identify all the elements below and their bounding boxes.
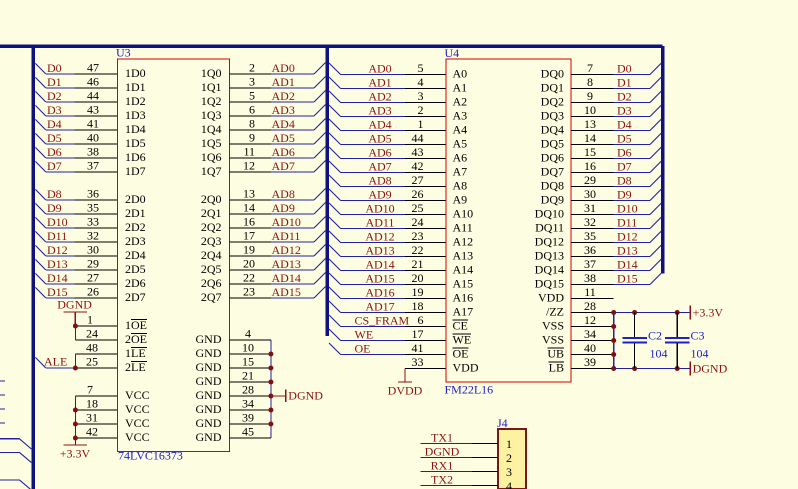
svg-text:104: 104 — [691, 347, 709, 361]
wire DGND to J4 pin 2 — [421, 445, 512, 466]
svg-text:36: 36 — [87, 187, 99, 201]
power +3.3V symbol below U3 — [60, 445, 91, 461]
svg-text:19: 19 — [243, 243, 255, 257]
svg-text:D14: D14 — [617, 258, 638, 272]
svg-text:A9: A9 — [453, 193, 468, 207]
wire D15 to U3 pin 26 (bus entry from left D-bus) — [35, 285, 117, 300]
svg-text:AD2: AD2 — [368, 90, 391, 104]
wire vertical tie VSS/UB pins to rails — [611, 313, 616, 369]
svg-text:A3: A3 — [453, 109, 468, 123]
pin name DQ6 of U4 (right) — [541, 151, 564, 165]
svg-text:14: 14 — [584, 131, 596, 145]
capacitor C2 104 — [623, 313, 668, 369]
wire stub at left edge row 381 — [0, 380, 5, 382]
svg-text:AD4: AD4 — [368, 118, 391, 132]
svg-text:VCC: VCC — [125, 430, 150, 444]
wire AD9 from AD-bus to U4 pin 26 — [329, 187, 446, 202]
svg-text:A16: A16 — [453, 291, 474, 305]
wire AD15 from AD-bus to U4 pin 20 — [329, 271, 446, 286]
svg-text:AD3: AD3 — [368, 104, 391, 118]
svg-text:OE: OE — [355, 342, 371, 356]
svg-text:GND: GND — [196, 416, 222, 430]
svg-text:AD1: AD1 — [272, 75, 295, 89]
wire from left edge into D-bus row 452.3 — [0, 452, 31, 462]
pin name A16 of U4 — [453, 291, 474, 305]
svg-text:D10: D10 — [47, 215, 68, 229]
svg-text:3: 3 — [418, 89, 424, 103]
pin name A2 of U4 — [453, 95, 468, 109]
svg-text:44: 44 — [412, 131, 424, 145]
svg-text:VCC: VCC — [125, 416, 150, 430]
svg-text:LB: LB — [549, 361, 564, 375]
svg-text:1Q0: 1Q0 — [201, 66, 222, 80]
svg-text:AD3: AD3 — [272, 103, 295, 117]
svg-text:D1: D1 — [617, 76, 632, 90]
svg-text:A0: A0 — [453, 67, 468, 81]
svg-text:32: 32 — [87, 229, 99, 243]
wire AD5 from U3 pin 9 to AD-bus — [230, 131, 326, 146]
node ALE: net label and wire into U3 pin 25 (2LE) — [35, 355, 117, 371]
pin name 1LE (active low) of U3 — [125, 346, 147, 360]
svg-text:35: 35 — [87, 201, 99, 215]
svg-text:DQ10: DQ10 — [535, 207, 564, 221]
svg-text:AD1: AD1 — [368, 76, 391, 90]
wire D8 from U4 pin 29 to right D-bus — [571, 173, 661, 188]
svg-text:30: 30 — [87, 243, 99, 257]
svg-text:1D0: 1D0 — [125, 66, 146, 80]
svg-text:D5: D5 — [47, 131, 62, 145]
wire U4 pin 34 to ground rail — [571, 327, 614, 341]
svg-text:16: 16 — [584, 159, 596, 173]
svg-text:AD9: AD9 — [272, 201, 295, 215]
svg-text:17: 17 — [412, 327, 424, 341]
svg-text:DQ12: DQ12 — [535, 235, 564, 249]
pin name VDD of U4 — [453, 361, 479, 375]
pin name DQ1 of U4 (right) — [541, 81, 564, 95]
svg-text:A14: A14 — [453, 263, 474, 277]
wire AD0 from U3 pin 2 to AD-bus — [230, 61, 326, 76]
svg-text:2D4: 2D4 — [125, 248, 146, 262]
wire D14 to U3 pin 27 (bus entry from left D-bus) — [35, 271, 117, 286]
wire D13 to U3 pin 29 (bus entry from left D-bus) — [35, 257, 117, 272]
svg-text:VDD: VDD — [538, 291, 564, 305]
pin name 1D1 of U3 — [125, 80, 222, 94]
svg-text:7: 7 — [587, 61, 593, 75]
svg-text:AD2: AD2 — [272, 89, 295, 103]
wire DGND rail (pin 39 row) — [611, 366, 690, 371]
wire U3 pin 24 (2OE) — [75, 327, 117, 341]
svg-text:43: 43 — [412, 145, 424, 159]
svg-text:7: 7 — [87, 383, 93, 397]
svg-text:9: 9 — [587, 89, 593, 103]
capacitor C3 104 — [665, 313, 708, 369]
pin name DQ8 of U4 (right) — [541, 179, 564, 193]
wire WE from AD-bus to U4 pin 17 — [329, 327, 446, 342]
svg-text:1Q7: 1Q7 — [201, 164, 222, 178]
pin name A0 of U4 — [453, 67, 468, 81]
svg-text:18: 18 — [86, 397, 98, 411]
wire AD8 from AD-bus to U4 pin 27 — [329, 173, 446, 188]
wire TX2 to J4 pin 4 — [421, 473, 512, 489]
svg-text:A7: A7 — [453, 165, 468, 179]
svg-text:40: 40 — [87, 131, 99, 145]
pin name 2D6 of U3 — [125, 276, 222, 290]
wire: vertical GND rail right of U3 — [270, 340, 272, 438]
pin name 1OE (active low) of U3 — [125, 318, 147, 332]
svg-text:U3: U3 — [116, 46, 131, 60]
svg-text:34: 34 — [242, 397, 254, 411]
power +3.3V port right of capacitors — [690, 306, 723, 320]
svg-text:J4: J4 — [497, 416, 508, 430]
svg-text:AD15: AD15 — [365, 272, 394, 286]
wire D3 to U3 pin 43 (bus entry from left D-bus) — [35, 103, 117, 118]
svg-text:A2: A2 — [453, 95, 468, 109]
svg-text:46: 46 — [87, 75, 99, 89]
svg-text:AD10: AD10 — [365, 202, 394, 216]
pin name VCC of U3 — [125, 430, 150, 444]
svg-text:VDD: VDD — [453, 361, 479, 375]
pin name A6 of U4 — [453, 151, 468, 165]
svg-text:10: 10 — [242, 341, 254, 355]
pin name DQ10 of U4 (right) — [535, 207, 564, 221]
svg-text:A4: A4 — [453, 123, 468, 137]
svg-text:VCC: VCC — [125, 388, 150, 402]
pin name A15 of U4 — [453, 277, 474, 291]
transistor U4 FRAM FM22L16 component body — [445, 46, 572, 397]
svg-text:28: 28 — [242, 383, 254, 397]
svg-text:RX1: RX1 — [431, 459, 454, 473]
svg-text:AD8: AD8 — [368, 174, 391, 188]
svg-text:DGND: DGND — [693, 362, 728, 376]
wire D4 from U4 pin 13 to right D-bus — [571, 117, 661, 132]
svg-text:32: 32 — [584, 215, 596, 229]
svg-text:D8: D8 — [47, 187, 62, 201]
svg-text:1D3: 1D3 — [125, 108, 146, 122]
pin name A8 of U4 — [453, 179, 468, 193]
wire stub at left edge row 395 — [0, 394, 5, 396]
svg-text:4: 4 — [245, 327, 251, 341]
wire: vertical tie pins 1-24 — [74, 326, 76, 340]
pin name VSS of U4 (right) — [542, 319, 564, 333]
svg-text:36: 36 — [584, 243, 596, 257]
wire: vertical tie pins 48-25 — [74, 354, 76, 368]
svg-text:22: 22 — [412, 243, 424, 257]
svg-text:39: 39 — [242, 411, 254, 425]
svg-text:45: 45 — [242, 425, 254, 439]
svg-text:AD0: AD0 — [368, 62, 391, 76]
wire D9 from U4 pin 30 to right D-bus — [571, 187, 661, 202]
connector J4 body — [497, 416, 526, 489]
wire U3 GND pin 34 — [230, 397, 274, 413]
svg-text:1D1: 1D1 — [125, 80, 146, 94]
svg-text:1Q4: 1Q4 — [201, 122, 222, 136]
wire U4 VDD pin 33 to DVDD — [405, 355, 446, 369]
svg-text:1Q2: 1Q2 — [201, 94, 222, 108]
svg-text:GND: GND — [196, 430, 222, 444]
wire U3 pin 1 (1OE) with junction to DGND — [73, 313, 118, 329]
pin name A12 of U4 — [453, 235, 474, 249]
svg-text:2: 2 — [249, 61, 255, 75]
wire AD10 from AD-bus to U4 pin 25 — [329, 201, 446, 216]
wire AD5 from AD-bus to U4 pin 44 — [329, 131, 446, 146]
pin name VDD of U4 (right) — [538, 291, 564, 305]
pin name DQ3 of U4 (right) — [541, 109, 564, 123]
svg-text:UB: UB — [547, 347, 564, 361]
svg-text:2Q3: 2Q3 — [201, 234, 222, 248]
svg-text:A17: A17 — [453, 305, 474, 319]
svg-text:D10: D10 — [617, 202, 638, 216]
svg-text:DQ14: DQ14 — [535, 263, 564, 277]
wire stub at left edge row 409 — [0, 408, 5, 410]
pin name DQ12 of U4 (right) — [535, 235, 564, 249]
svg-text:44: 44 — [87, 89, 99, 103]
wire U4 pin 39 to ground rail — [571, 355, 614, 369]
svg-text:AD13: AD13 — [365, 244, 394, 258]
svg-text:U4: U4 — [445, 46, 460, 60]
svg-text:CE: CE — [453, 319, 468, 333]
svg-text:2D1: 2D1 — [125, 206, 146, 220]
wire D1 to U3 pin 46 (bus entry from left D-bus) — [35, 75, 117, 90]
pin name DQ7 of U4 (right) — [541, 165, 564, 179]
svg-text:4: 4 — [418, 75, 424, 89]
wire U3 VCC pin 42 — [73, 425, 118, 441]
svg-text:11: 11 — [243, 145, 255, 159]
pin name DQ4 of U4 (right) — [541, 123, 564, 137]
wire U3 GND pin 21 — [230, 369, 274, 385]
svg-text:D3: D3 — [47, 103, 62, 117]
svg-text:1D7: 1D7 — [125, 164, 146, 178]
svg-text:3: 3 — [249, 75, 255, 89]
svg-text:D0: D0 — [47, 61, 62, 75]
svg-text:AD7: AD7 — [272, 159, 295, 173]
svg-text:AD8: AD8 — [272, 187, 295, 201]
svg-text:1Q1: 1Q1 — [201, 80, 222, 94]
pin name DQ5 of U4 (right) — [541, 137, 564, 151]
svg-text:1Q6: 1Q6 — [201, 150, 222, 164]
pin name GND of U3 — [196, 388, 222, 402]
pin name 2D4 of U3 — [125, 248, 222, 262]
bus: main horizontal data bus at top — [0, 44, 663, 48]
svg-text:AD16: AD16 — [365, 286, 394, 300]
wire AD2 from U3 pin 5 to AD-bus — [230, 89, 326, 104]
svg-text:D7: D7 — [617, 160, 632, 174]
svg-text:GND: GND — [196, 402, 222, 416]
wire AD9 from U3 pin 14 to AD-bus — [230, 201, 326, 216]
pin name GND of U3 — [196, 346, 222, 360]
pin name 1D3 of U3 — [125, 108, 222, 122]
svg-text:DQ9: DQ9 — [541, 193, 564, 207]
svg-text:D2: D2 — [617, 90, 632, 104]
svg-text:D13: D13 — [47, 257, 68, 271]
svg-text:D4: D4 — [617, 118, 632, 132]
pin name DQ11 of U4 (right) — [535, 221, 564, 235]
svg-text:48: 48 — [86, 341, 98, 355]
wire OE from AD-bus to U4 pin 41 — [329, 341, 446, 356]
wire D2 to U3 pin 44 (bus entry from left D-bus) — [35, 89, 117, 104]
pin name GND of U3 — [196, 416, 222, 430]
wire AD16 from AD-bus to U4 pin 19 — [329, 285, 446, 300]
wire CS_FRAM from AD-bus to U4 pin 6 — [329, 313, 446, 328]
svg-text:31: 31 — [86, 411, 98, 425]
pin name A3 of U4 — [453, 109, 468, 123]
svg-text:FM22L16: FM22L16 — [445, 383, 494, 397]
wire D0 to U3 pin 47 (bus entry from left D-bus) — [35, 61, 117, 76]
svg-text:2D5: 2D5 — [125, 262, 146, 276]
wire AD3 from U3 pin 6 to AD-bus — [230, 103, 326, 118]
pin name A13 of U4 — [453, 249, 474, 263]
svg-text:AD7: AD7 — [368, 160, 391, 174]
svg-text:13: 13 — [243, 187, 255, 201]
pin name DQ13 of U4 (right) — [535, 249, 564, 263]
svg-text:/ZZ: /ZZ — [546, 305, 564, 319]
wire +3.3V rail (pin 28 row) — [611, 310, 690, 315]
svg-text:D12: D12 — [617, 230, 638, 244]
svg-text:2Q7: 2Q7 — [201, 290, 222, 304]
svg-text:2Q2: 2Q2 — [201, 220, 222, 234]
pin name A17 of U4 — [453, 305, 474, 319]
svg-text:D8: D8 — [617, 174, 632, 188]
bus: middle vertical AD-bus — [325, 46, 329, 336]
wire TX1 to J4 pin 1 — [421, 431, 512, 452]
svg-text:2Q4: 2Q4 — [201, 248, 222, 262]
svg-text:5: 5 — [418, 61, 424, 75]
pin name 2D1 of U3 — [125, 206, 222, 220]
wire AD7 from U3 pin 12 to AD-bus — [230, 159, 326, 174]
svg-text:20: 20 — [243, 257, 255, 271]
svg-text:2D0: 2D0 — [125, 192, 146, 206]
wire D2 from U4 pin 9 to right D-bus — [571, 89, 661, 104]
svg-text:2D6: 2D6 — [125, 276, 146, 290]
wire D1 from U4 pin 8 to right D-bus — [571, 75, 661, 90]
wire U4 pin 12 to ground rail — [571, 313, 614, 327]
svg-text:A10: A10 — [453, 207, 474, 221]
svg-text:2Q5: 2Q5 — [201, 262, 222, 276]
svg-text:C2: C2 — [648, 329, 662, 343]
pin name A4 of U4 — [453, 123, 468, 137]
pin name GND of U3 — [196, 402, 222, 416]
wire AD2 from AD-bus to U4 pin 3 — [329, 89, 446, 104]
wire U3 VCC pin 7 — [75, 383, 117, 397]
svg-text:DQ0: DQ0 — [541, 67, 564, 81]
bus: right vertical D-bus to U4 — [661, 46, 665, 274]
svg-text:DGND: DGND — [57, 298, 92, 312]
pin name A10 of U4 — [453, 207, 474, 221]
wire AD6 from U3 pin 11 to AD-bus — [230, 145, 326, 160]
svg-text:ALE: ALE — [44, 355, 67, 369]
svg-text:33: 33 — [412, 355, 424, 369]
svg-text:D13: D13 — [617, 244, 638, 258]
ground DGND port right of capacitors — [690, 362, 727, 376]
wire D5 to U3 pin 40 (bus entry from left D-bus) — [35, 131, 117, 146]
wire from left edge into D-bus row 479.8 — [0, 480, 31, 489]
svg-text:42: 42 — [412, 159, 424, 173]
pin name A5 of U4 — [453, 137, 468, 151]
svg-text:GND: GND — [196, 346, 222, 360]
svg-text:25: 25 — [86, 355, 98, 369]
svg-text:42: 42 — [86, 425, 98, 439]
svg-text:2: 2 — [506, 451, 512, 465]
wire AD8 from U3 pin 13 to AD-bus — [230, 187, 326, 202]
wire D7 from U4 pin 16 to right D-bus — [571, 159, 661, 174]
wire D12 to U3 pin 30 (bus entry from left D-bus) — [35, 243, 117, 258]
svg-text:D12: D12 — [47, 243, 68, 257]
wire U3 GND pin 39 — [230, 411, 274, 427]
svg-text:AD4: AD4 — [272, 117, 295, 131]
svg-text:28: 28 — [584, 299, 596, 313]
wire AD6 from AD-bus to U4 pin 43 — [329, 145, 446, 160]
pin name UB of U4 (right) — [547, 347, 564, 361]
svg-text:1D6: 1D6 — [125, 150, 146, 164]
svg-text:29: 29 — [87, 257, 99, 271]
wire AD11 from AD-bus to U4 pin 24 — [329, 215, 446, 230]
svg-text:1Q3: 1Q3 — [201, 108, 222, 122]
svg-text:DQ5: DQ5 — [541, 137, 564, 151]
wire D4 to U3 pin 41 (bus entry from left D-bus) — [35, 117, 117, 132]
svg-text:AD5: AD5 — [368, 132, 391, 146]
svg-text:12: 12 — [584, 313, 596, 327]
wire U3 GND pin 45 — [230, 425, 271, 439]
wire AD12 from U3 pin 19 to AD-bus — [230, 243, 326, 258]
svg-text:TX1: TX1 — [431, 431, 453, 445]
svg-text:A6: A6 — [453, 151, 468, 165]
svg-text:23: 23 — [412, 229, 424, 243]
svg-text:1: 1 — [418, 117, 424, 131]
svg-text:DQ2: DQ2 — [541, 95, 564, 109]
svg-text:35: 35 — [584, 229, 596, 243]
svg-text:2OE: 2OE — [125, 332, 147, 346]
pin name 1D7 of U3 — [125, 164, 222, 178]
svg-text:AD0: AD0 — [272, 61, 295, 75]
wire AD4 from AD-bus to U4 pin 1 — [329, 117, 446, 132]
pin name 1D2 of U3 — [125, 94, 222, 108]
svg-text:5: 5 — [249, 89, 255, 103]
svg-text:VCC: VCC — [125, 402, 150, 416]
svg-text:8: 8 — [249, 117, 255, 131]
pin name A14 of U4 — [453, 263, 474, 277]
svg-text:29: 29 — [584, 173, 596, 187]
svg-text:1OE: 1OE — [125, 318, 147, 332]
svg-text:11: 11 — [584, 285, 596, 299]
pin name 1D4 of U3 — [125, 122, 222, 136]
svg-text:DQ1: DQ1 — [541, 81, 564, 95]
svg-text:6: 6 — [418, 313, 424, 327]
wire D9 to U3 pin 35 (bus entry from left D-bus) — [35, 201, 117, 216]
wire AD4 from U3 pin 8 to AD-bus — [230, 117, 326, 132]
pin name 1D5 of U3 — [125, 136, 222, 150]
pin name WE of U4 — [453, 333, 472, 347]
wire AD17 from AD-bus to U4 pin 18 — [329, 299, 446, 314]
svg-text:DGND: DGND — [288, 389, 323, 403]
svg-text:AD10: AD10 — [272, 215, 301, 229]
svg-text:DQ3: DQ3 — [541, 109, 564, 123]
pin name VCC of U3 — [125, 416, 150, 430]
wire U3 GND pin 10 — [230, 341, 274, 357]
svg-text:AD12: AD12 — [365, 230, 394, 244]
pin name A7 of U4 — [453, 165, 468, 179]
wire D8 to U3 pin 36 (bus entry from left D-bus) — [35, 187, 117, 202]
pin name DQ14 of U4 (right) — [535, 263, 564, 277]
wire D3 from U4 pin 10 to right D-bus — [571, 103, 661, 118]
svg-text:AD6: AD6 — [272, 145, 295, 159]
svg-text:38: 38 — [584, 271, 596, 285]
bus: left vertical D-bus — [31, 44, 35, 489]
svg-text:AD6: AD6 — [368, 146, 391, 160]
svg-text:13: 13 — [584, 117, 596, 131]
svg-text:31: 31 — [584, 201, 596, 215]
svg-text:GND: GND — [196, 374, 222, 388]
pin name A9 of U4 — [453, 193, 468, 207]
wire AD1 from AD-bus to U4 pin 4 — [329, 75, 446, 90]
